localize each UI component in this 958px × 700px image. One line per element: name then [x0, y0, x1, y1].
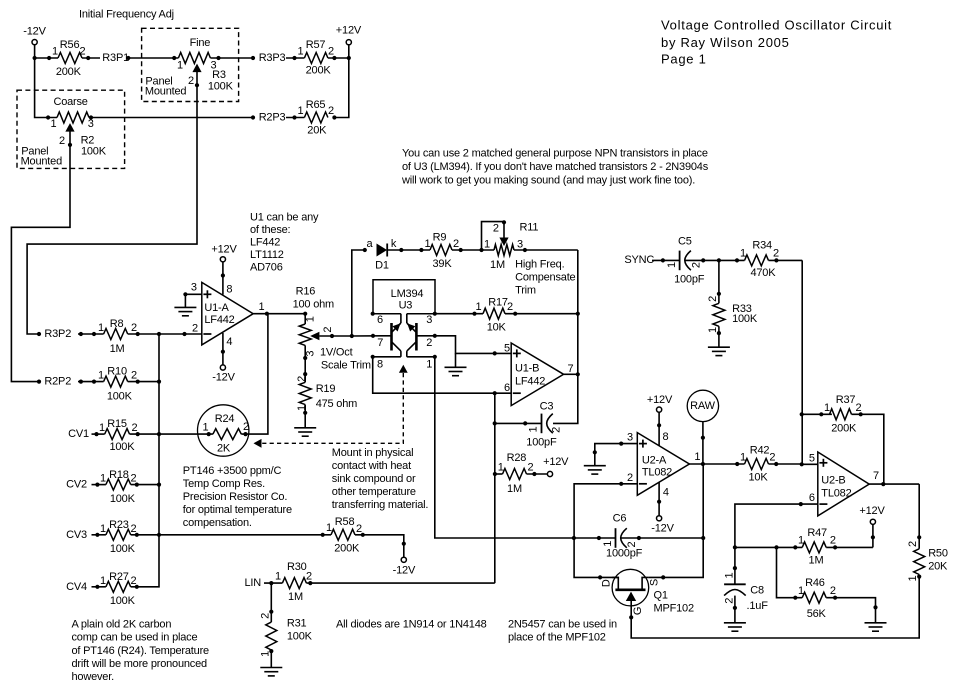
svg-text:2N5457 can be used in: 2N5457 can be used in	[508, 618, 617, 630]
wire R3P3 to R57	[286, 57, 304, 59]
wire C3 node down the inverting bus	[494, 393, 496, 583]
IC U3 LM394 box	[373, 280, 435, 314]
wire R34 down to R37 row	[801, 260, 803, 464]
node CV2	[66, 479, 106, 491]
wire R56 to R3P1	[82, 57, 100, 59]
junction bus at R18	[157, 483, 161, 487]
resistor R10 100K	[79, 366, 140, 403]
svg-text:100K: 100K	[81, 145, 107, 157]
svg-text:R19: R19	[316, 383, 336, 395]
svg-text:R37: R37	[836, 394, 856, 406]
note U1 options	[250, 212, 319, 274]
junction C8 row	[733, 545, 737, 549]
note mount in physical contact	[332, 447, 429, 511]
svg-text:2: 2	[493, 223, 499, 235]
svg-text:1: 1	[99, 422, 105, 434]
svg-text:1: 1	[305, 316, 317, 322]
svg-text:2: 2	[260, 613, 272, 619]
wire R11 to feedback line	[514, 249, 578, 251]
wire fine pot wiper run to R3P2	[27, 85, 197, 334]
power terminal +12V top	[336, 25, 362, 45]
svg-text:S: S	[649, 579, 661, 586]
svg-text:100K: 100K	[110, 543, 136, 555]
svg-text:1000pF: 1000pF	[606, 547, 643, 559]
wire from -12V down and to coarse pot	[35, 45, 57, 118]
junction C5/R33/R34	[717, 258, 721, 262]
svg-text:2: 2	[328, 105, 334, 117]
U2-A pin 4 wire	[657, 482, 669, 515]
svg-text:1M: 1M	[288, 591, 303, 603]
wire R2P3 to R65	[286, 117, 304, 119]
wire R37 to U2-B output	[852, 414, 884, 484]
transistor pair left half	[392, 323, 401, 357]
svg-text:G: G	[632, 607, 644, 615]
wire RAW to U2-A output	[701, 422, 705, 464]
svg-text:1: 1	[51, 118, 57, 130]
wire R27 to bus corner	[131, 334, 159, 587]
svg-text:U1-B: U1-B	[515, 363, 539, 375]
op-amp U1-B LF442	[511, 343, 563, 406]
svg-text:R3P2: R3P2	[44, 328, 71, 340]
node R3P3	[251, 52, 286, 64]
svg-text:CV4: CV4	[66, 581, 87, 593]
resistor R17 10K	[435, 296, 578, 333]
svg-text:Page 1: Page 1	[661, 52, 707, 67]
wire R46 to ground	[826, 598, 877, 623]
U2-A pin 8 wire	[657, 412, 669, 446]
svg-text:C3: C3	[540, 400, 554, 412]
svg-text:3: 3	[305, 351, 317, 357]
svg-text:LF442: LF442	[204, 314, 234, 326]
svg-text:2: 2	[192, 322, 198, 334]
svg-text:56K: 56K	[807, 608, 827, 620]
svg-text:2: 2	[769, 452, 775, 464]
svg-text:1V/Oct: 1V/Oct	[320, 346, 353, 358]
svg-text:Mount in physical: Mount in physical	[332, 447, 414, 459]
U1-B pin 5 marker	[493, 343, 510, 356]
wire C6 right down to Q1 source	[649, 464, 706, 577]
svg-text:6: 6	[809, 492, 815, 504]
wire R46 branch	[777, 547, 803, 597]
U3 pin 7 base lead	[352, 334, 392, 350]
svg-text:Compensate: Compensate	[515, 271, 575, 283]
wire R8 to U1-A pin 2	[128, 333, 202, 335]
op-amp U1-A LF442	[202, 282, 253, 345]
svg-text:2: 2	[550, 427, 562, 433]
wire U3 pin 1 down to C6 row	[435, 357, 574, 538]
wire R23 to bus and on to R58	[131, 534, 331, 536]
resistor R27 100K	[95, 571, 139, 607]
svg-text:3: 3	[517, 239, 523, 251]
svg-text:2: 2	[328, 46, 334, 58]
power terminal -12V at R58	[393, 557, 416, 576]
svg-text:2: 2	[296, 376, 308, 382]
svg-text:7: 7	[873, 470, 879, 482]
note 2N5457	[508, 618, 617, 643]
wire R10 to bus	[128, 381, 159, 383]
svg-text:1: 1	[326, 522, 332, 534]
svg-text:R30: R30	[287, 561, 307, 573]
ground below R46	[865, 623, 887, 631]
node LIN	[245, 577, 283, 589]
transistor pair right half	[407, 323, 417, 357]
U3 pin 1 bottom wire	[407, 355, 437, 371]
U2-B output pin 7	[869, 470, 919, 486]
svg-text:200K: 200K	[831, 422, 857, 434]
output terminal RAW	[687, 390, 718, 421]
svg-text:Voltage Controlled Oscillator: Voltage Controlled Oscillator Circuit	[661, 18, 892, 33]
svg-text:-12V: -12V	[393, 565, 416, 577]
svg-text:R58: R58	[335, 516, 355, 528]
svg-text:Mounted: Mounted	[145, 85, 186, 97]
node R2P3	[251, 112, 286, 124]
junction R42/R37 line at U2-B pin 5	[800, 462, 818, 466]
svg-text:1: 1	[296, 405, 308, 411]
svg-text:R34: R34	[752, 240, 772, 252]
junction R17 feedback line	[576, 312, 580, 316]
svg-text:You can use 2 matched general: You can use 2 matched general purpose NP…	[402, 148, 708, 160]
svg-text:R3P1: R3P1	[102, 52, 129, 64]
capacitor C8 .1uF	[723, 547, 768, 612]
svg-text:2: 2	[188, 75, 194, 87]
U3 pin 8 bottom wire	[371, 355, 401, 371]
resistor R30 1M	[275, 561, 495, 603]
svg-text:LF442: LF442	[250, 237, 280, 249]
trimpot R11 1M	[482, 220, 539, 271]
svg-text:2: 2	[830, 535, 836, 547]
dashed enclosure for panel mounted fine pot	[142, 28, 239, 101]
svg-text:3: 3	[88, 118, 94, 130]
ground at U2-A pin 3	[584, 466, 606, 474]
wire U1-B output down to C3	[553, 374, 578, 423]
svg-text:-12V: -12V	[212, 372, 235, 384]
note diodes	[336, 618, 487, 630]
pin 2 marker U1-A	[182, 332, 186, 336]
wire R16 lower leg to R19	[303, 345, 307, 382]
svg-text:2: 2	[724, 598, 736, 604]
node R3P2	[37, 328, 71, 340]
resistor R56 200K	[47, 39, 90, 78]
svg-text:39K: 39K	[433, 258, 453, 270]
svg-text:R27: R27	[109, 571, 129, 583]
svg-text:U2-A: U2-A	[642, 455, 667, 467]
svg-text:1: 1	[203, 422, 209, 434]
svg-text:-12V: -12V	[23, 26, 46, 38]
svg-text:Precision Resistor Co.: Precision Resistor Co.	[183, 491, 288, 503]
svg-text:200K: 200K	[56, 66, 82, 78]
ground at U1-B pin 5 node	[445, 353, 467, 375]
note 2K carbon	[72, 618, 210, 683]
svg-text:R24: R24	[215, 413, 235, 425]
svg-text:R16: R16	[296, 285, 316, 297]
op-amp U2-A TL082	[637, 433, 689, 496]
feedback line from R11 down to U1-B output	[577, 250, 579, 374]
svg-text:-12V: -12V	[651, 522, 674, 534]
svg-text:1: 1	[476, 301, 482, 313]
svg-text:1: 1	[484, 239, 490, 251]
junction bus at R10	[157, 380, 161, 384]
svg-text:of these:: of these:	[250, 224, 291, 236]
node R2P2	[37, 376, 71, 388]
svg-text:contact with heat: contact with heat	[332, 460, 411, 472]
svg-text:R2P3: R2P3	[259, 112, 286, 124]
svg-text:U1-A: U1-A	[204, 302, 229, 314]
svg-text:10K: 10K	[749, 472, 769, 484]
svg-text:R3: R3	[212, 69, 226, 81]
diode D1	[363, 238, 430, 272]
resistor R15 100K	[94, 418, 139, 453]
svg-text:3: 3	[627, 432, 633, 444]
svg-text:1: 1	[298, 46, 304, 58]
svg-text:5: 5	[504, 343, 510, 355]
svg-text:R50: R50	[928, 548, 948, 560]
svg-text:1: 1	[723, 572, 735, 578]
svg-text:+12V: +12V	[543, 456, 569, 468]
svg-text:100K: 100K	[287, 631, 313, 643]
svg-text:2: 2	[773, 247, 779, 259]
svg-text:R57: R57	[306, 39, 326, 51]
note PT146	[183, 465, 292, 529]
U2-A pin 3 wire to ground	[593, 432, 638, 466]
svg-text:Coarse: Coarse	[53, 96, 87, 108]
svg-text:1: 1	[100, 575, 106, 587]
svg-text:1: 1	[52, 46, 58, 58]
svg-text:2: 2	[690, 262, 702, 268]
svg-text:+12V: +12V	[211, 244, 237, 256]
svg-text:100K: 100K	[110, 595, 136, 607]
svg-text:SYNC: SYNC	[624, 254, 654, 266]
resistor R50 20K	[907, 541, 948, 582]
svg-text:1M: 1M	[809, 555, 824, 567]
svg-text:200K: 200K	[306, 65, 332, 77]
svg-text:2: 2	[426, 337, 432, 349]
svg-text:MPF102: MPF102	[654, 602, 694, 614]
svg-text:PT146 +3500 ppm/C: PT146 +3500 ppm/C	[183, 465, 282, 477]
junction bus at R15	[157, 432, 161, 436]
svg-text:1: 1	[298, 105, 304, 117]
svg-text:Temp Comp Res.: Temp Comp Res.	[183, 478, 265, 490]
power terminal -12V top left	[23, 26, 46, 45]
svg-text:1: 1	[602, 541, 614, 547]
svg-text:RAW: RAW	[690, 400, 715, 412]
node CV1	[68, 428, 105, 440]
svg-text:1M: 1M	[507, 483, 522, 495]
wire R57 to +12V rail	[328, 57, 349, 59]
wire R18 to bus	[131, 484, 159, 486]
svg-text:2: 2	[507, 301, 513, 313]
U1-B output pin 7	[564, 363, 580, 376]
svg-text:1: 1	[425, 238, 431, 250]
svg-text:1: 1	[707, 327, 719, 333]
U2-B pin 6 wire	[735, 492, 818, 548]
svg-text:R8: R8	[110, 318, 124, 330]
svg-text:100K: 100K	[110, 493, 136, 505]
capacitor C3 100pF	[493, 400, 563, 448]
label 1V/Oct Scale Trim	[320, 346, 371, 371]
svg-text:CV1: CV1	[68, 428, 89, 440]
svg-text:6: 6	[377, 314, 383, 326]
svg-text:2: 2	[131, 473, 137, 485]
wire R15 to R24	[130, 433, 213, 435]
svg-text:1: 1	[98, 370, 104, 382]
svg-text:100pF: 100pF	[526, 436, 557, 448]
svg-text:Mounted: Mounted	[21, 156, 62, 168]
resistor R65 20K	[292, 99, 336, 137]
svg-text:R15: R15	[107, 418, 127, 430]
resistor R37 200K	[802, 394, 863, 434]
svg-text:R42: R42	[750, 445, 770, 457]
power terminal -12V for U1-A	[212, 365, 235, 384]
resistor R8 1M	[79, 318, 140, 355]
svg-text:100pF: 100pF	[674, 273, 705, 285]
capacitor C6 1000pF	[597, 513, 703, 560]
wire R50 bottom feedback to Q1 gate	[631, 575, 919, 639]
power terminal +12V at R47	[859, 505, 885, 547]
svg-text:R28: R28	[507, 452, 527, 464]
svg-text:20K: 20K	[307, 125, 327, 137]
power terminal -12V for U2-A	[651, 516, 674, 535]
svg-text:R47: R47	[807, 527, 827, 539]
svg-text:1: 1	[259, 301, 265, 313]
svg-text:5: 5	[809, 452, 815, 464]
svg-text:comp can be used in place: comp can be used in place	[72, 632, 198, 644]
node junction +12V rail	[347, 56, 351, 60]
op-amp U2-B TL082	[818, 452, 869, 516]
wire coarse pot to R2P3	[89, 117, 251, 119]
power terminal +12V for U2-A	[647, 394, 673, 412]
wire from R16 wiper node up to D1	[352, 250, 365, 336]
svg-text:Initial Frequency Adj: Initial Frequency Adj	[79, 9, 174, 21]
wire to R56	[35, 57, 58, 59]
svg-text:LT1112: LT1112	[250, 249, 284, 261]
junction bus at R23	[157, 533, 161, 537]
svg-text:U1 can be any: U1 can be any	[250, 212, 319, 224]
svg-text:CV2: CV2	[66, 479, 87, 491]
potentiometer R2 Coarse 100K	[46, 96, 107, 157]
trimpot R16 100 ohm	[293, 285, 352, 356]
resistor R33 100K	[707, 260, 758, 335]
pin 4 wire	[221, 333, 233, 365]
svg-text:1: 1	[177, 60, 183, 72]
junction at wiper node	[350, 334, 354, 338]
resistor R28 1M	[493, 452, 548, 495]
svg-text:100K: 100K	[208, 80, 234, 92]
resistor R42 10K	[735, 445, 802, 484]
resistor R47 1M	[793, 527, 873, 566]
wire R3P1 to fine pot	[128, 57, 178, 59]
node SYNC	[624, 254, 679, 266]
svg-text:Trim: Trim	[515, 285, 536, 297]
svg-text:4: 4	[663, 486, 669, 498]
svg-text:place of the MPF102: place of the MPF102	[508, 631, 606, 643]
svg-text:R18: R18	[109, 469, 129, 481]
U2-A output pin 1	[689, 451, 744, 466]
output pin 1 wire	[253, 301, 305, 316]
svg-text:2: 2	[356, 523, 362, 535]
svg-text:D: D	[601, 579, 613, 587]
svg-text:2: 2	[132, 422, 138, 434]
svg-text:2: 2	[80, 46, 86, 58]
svg-text:LM394: LM394	[391, 288, 424, 300]
svg-text:20K: 20K	[928, 560, 948, 572]
U3 collector stubs	[401, 314, 407, 323]
svg-text:sink compound or: sink compound or	[332, 473, 416, 485]
node junction at R56 pin 1 feed	[33, 56, 37, 60]
svg-text:compensation.: compensation.	[183, 517, 252, 529]
ground at U1-A pin 3	[174, 294, 196, 316]
U1-B pin 6 marker	[493, 382, 510, 395]
note about matched transistors	[401, 148, 709, 187]
svg-text:R11: R11	[520, 222, 539, 234]
wire fine pot to R3P3	[210, 57, 251, 59]
svg-text:2: 2	[131, 322, 137, 334]
svg-text:for optimal temperature: for optimal temperature	[183, 504, 292, 516]
svg-text:2: 2	[528, 461, 534, 473]
svg-text:D1: D1	[375, 260, 389, 272]
node CV3	[66, 529, 106, 541]
svg-text:100K: 100K	[732, 313, 758, 325]
svg-text:R2P2: R2P2	[44, 376, 71, 388]
svg-text:6: 6	[504, 382, 510, 394]
svg-text:2: 2	[907, 541, 919, 547]
svg-text:R17: R17	[488, 296, 508, 308]
svg-text:2: 2	[131, 575, 137, 587]
svg-text:R3P3: R3P3	[259, 52, 286, 64]
potentiometer R3 Fine 100K	[172, 37, 234, 92]
svg-text:TL082: TL082	[642, 467, 672, 479]
svg-text:2: 2	[131, 523, 137, 535]
svg-text:100K: 100K	[109, 441, 135, 453]
transistor Q1 MPF102	[598, 569, 694, 619]
svg-text:1M: 1M	[490, 259, 505, 271]
svg-text:2: 2	[707, 296, 719, 302]
svg-text:470K: 470K	[750, 267, 776, 279]
wire U3 pin 2 to U1-B pin 5 node	[435, 336, 511, 354]
svg-text:2: 2	[322, 327, 334, 333]
svg-text:4: 4	[226, 336, 232, 348]
svg-text:transferring material.: transferring material.	[332, 499, 429, 511]
wire U3 pin 8 down and to U1-B pin 6	[373, 357, 512, 393]
resistor R57 200K	[292, 39, 336, 77]
resistor R23 100K	[95, 519, 139, 555]
svg-text:however.: however.	[72, 671, 115, 683]
svg-text:100 ohm: 100 ohm	[293, 299, 334, 311]
dashed pointer from note to U3	[254, 365, 408, 448]
svg-text:R9: R9	[433, 232, 447, 244]
svg-text:1: 1	[666, 262, 678, 268]
svg-text:2: 2	[453, 238, 459, 250]
svg-text:8: 8	[377, 359, 383, 371]
node R3P1	[102, 52, 130, 64]
junction R46 tap	[774, 545, 778, 549]
svg-text:R23: R23	[109, 519, 129, 531]
svg-text:1: 1	[824, 402, 830, 414]
svg-text:8: 8	[226, 284, 232, 296]
svg-text:A plain old 2K carbon: A plain old 2K carbon	[72, 618, 172, 630]
ground below R33	[708, 326, 730, 355]
tempco resistor R24 2K in circle	[198, 405, 250, 456]
resistor R34 470K	[735, 240, 802, 279]
node CV4	[66, 581, 106, 593]
svg-text:1: 1	[275, 571, 281, 583]
svg-text:1: 1	[98, 322, 104, 334]
svg-text:+12V: +12V	[336, 25, 362, 37]
title text: Initial Frequency Adj	[79, 9, 174, 21]
label High Freq Compensate Trim	[515, 259, 575, 297]
svg-text:2K: 2K	[217, 443, 231, 455]
resistor R58 200K	[321, 516, 365, 555]
svg-text:+12V: +12V	[647, 394, 673, 406]
